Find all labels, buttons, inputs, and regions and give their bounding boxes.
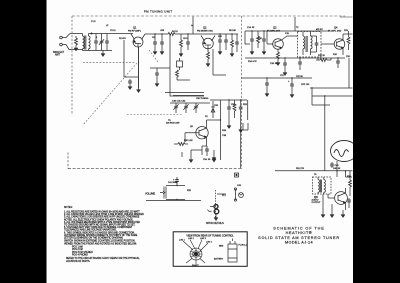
svg-text:REFER TO THE CIRCUIT BOARD X-R: REFER TO THE CIRCUIT BOARD X-RAY VIEWS F…: [66, 257, 140, 260]
svg-text:R8 10K: R8 10K: [229, 30, 237, 32]
svg-text:HEATHKIT®: HEATHKIT®: [286, 231, 313, 235]
notes text block: [64, 207, 144, 263]
pilot lamp PL1: [239, 193, 244, 198]
svg-text:C3 15: C3 15: [110, 30, 116, 32]
tuning gang dashed link to AM section: [127, 50, 183, 115]
svg-text:IF AMPL 2ND: IF AMPL 2ND: [328, 29, 342, 32]
border mask left: [0, 0, 47, 283]
svg-text:Q1: Q1: [133, 26, 137, 30]
svg-text:FM MIXER OSC: FM MIXER OSC: [197, 30, 213, 32]
label Q6 designator: [312, 195, 322, 204]
output transformer T6 primary: [318, 177, 320, 194]
svg-text:3. ALL CAPACITORS 1 OR GREATE: 3. ALL CAPACITORS 1 OR GREATER ARE IN PF…: [64, 216, 140, 219]
resistor R33: [349, 171, 352, 196]
svg-text:C34 .05: C34 .05: [203, 159, 211, 161]
earphone jack J1 tip: [210, 205, 218, 209]
ground below Q1: [137, 88, 141, 93]
svg-text:LOCATION OF PARTS.: LOCATION OF PARTS.: [66, 260, 90, 263]
capacitor C37: [239, 100, 243, 133]
wire volume bottom: [168, 198, 185, 200]
wire low rail pair: [165, 93, 204, 96]
wire top rail to boundary: [203, 33, 238, 35]
capacitor C1: [94, 34, 98, 51]
svg-text:NOTES:: NOTES:: [64, 207, 73, 209]
capacitor C6: [153, 34, 157, 55]
svg-text:SOLID STATE AM STEREO TUNER: SOLID STATE AM STEREO TUNER: [258, 236, 340, 240]
battery labels: [214, 245, 247, 261]
transformer T1 core: [85, 36, 86, 50]
title block text: [258, 227, 340, 245]
label Q1 designator: [128, 26, 142, 33]
trimmer capacitor C2: [99, 34, 104, 51]
volume control R30: [160, 186, 168, 200]
svg-text:POS 4 PHONO: POS 4 PHONO: [72, 254, 88, 256]
svg-text:C30 C31 C32: C30 C31 C32: [172, 101, 186, 103]
svg-text:VOLUME: VOLUME: [145, 193, 156, 196]
svg-text:BATTERY: BATTERY: [214, 258, 224, 261]
wire Q1 collector to rail: [145, 33, 160, 35]
label AM antenna: [166, 120, 180, 125]
svg-text:R20 2.2K: R20 2.2K: [184, 140, 193, 142]
ground small near jack: [212, 158, 216, 163]
label detector values: [222, 130, 227, 137]
svg-text:R4 1K: R4 1K: [172, 31, 178, 33]
svg-text:R31 270: R31 270: [296, 168, 305, 170]
antenna terminal E1: [60, 34, 70, 39]
wire volume top: [168, 185, 185, 187]
capacitor C15: [262, 31, 266, 55]
wire meter lead: [336, 161, 338, 171]
svg-text:LETTERED WIRING SHOWN CONNECTS: LETTERED WIRING SHOWN CONNECTS TO POINTS…: [64, 234, 138, 237]
svg-text:MODEL AJ-14: MODEL AJ-14: [285, 241, 313, 245]
label FM TUNING UNIT: [144, 9, 172, 13]
wire phono branch: [181, 152, 183, 157]
label AM tuning section values: [172, 101, 186, 103]
IF transformer T2 secondary: [311, 32, 313, 55]
resistor R4: [165, 33, 179, 36]
output transformer T6 core: [320, 180, 321, 193]
wire Q5 base: [185, 133, 199, 142]
svg-text:5. VOLTAGES MAY VARY ±20% DUE: 5. VOLTAGES MAY VARY ±20% DUE TO NORMAL …: [64, 226, 133, 229]
svg-text:FM TUNING UNIT: FM TUNING UNIT: [144, 9, 172, 13]
terminal strip square: [235, 173, 239, 177]
resistor R22: [233, 100, 236, 118]
label Q2 designator: [197, 26, 213, 33]
svg-text:NEG: NEG: [219, 246, 224, 248]
capacitor C9 second row: [155, 68, 159, 87]
capacitor C14: [250, 31, 254, 55]
wire AVC line vertical: [241, 100, 248, 168]
svg-text:C41 50MF: C41 50MF: [168, 182, 178, 184]
detail inset box: [173, 232, 247, 266]
wire B+ feed right: [310, 88, 353, 105]
capacitor C40: [330, 162, 339, 168]
svg-text:Q2: Q2: [203, 26, 207, 30]
earphone jack J1 sleeve: [208, 209, 219, 214]
diode D1: [211, 101, 215, 118]
output transformer T6 secondary: [324, 177, 326, 194]
wire Q1 bypass branch: [124, 40, 139, 77]
svg-text:SCHEMATIC OF THE: SCHEMATIC OF THE: [273, 227, 324, 231]
svg-text:C40 .02: C40 .02: [333, 168, 341, 170]
svg-text:ANT: ANT: [55, 54, 60, 57]
capacitor C45: [347, 198, 351, 208]
svg-text:Q3: Q3: [273, 26, 277, 30]
wire output stage feeds: [323, 171, 352, 213]
capacitor C8: [186, 34, 190, 50]
capacitor C11: [224, 34, 228, 50]
wire Q3 collector to T2: [282, 36, 299, 40]
label 300 ohm EXT ANT: [53, 51, 65, 57]
antenna terminal E2: [60, 43, 69, 49]
chassis dashed bus line: [68, 153, 242, 169]
wire T2 to Q4: [321, 43, 334, 45]
svg-text:FM RF AMPL: FM RF AMPL: [128, 29, 142, 32]
resistor R13: [347, 31, 350, 50]
control rear view drawing: [183, 240, 208, 265]
wire B plus drop from boundary: [193, 17, 295, 35]
label Q4 designator: [328, 26, 342, 33]
capacitor C18: [283, 58, 287, 76]
svg-text:C30 TUNING: C30 TUNING: [196, 98, 209, 100]
svg-text:NOTED. ALL ELECTROLYTICS SHOW: NOTED. ALL ELECTROLYTICS SHOW POLARITY A…: [64, 218, 134, 221]
svg-text:POS 1 AM: POS 1 AM: [72, 246, 83, 249]
inset title text: [186, 235, 234, 238]
IF transformer T2 core: [306, 36, 307, 52]
wire second row link: [150, 68, 190, 80]
svg-text:R2 470: R2 470: [119, 38, 127, 40]
svg-text:OFF ON: OFF ON: [301, 84, 310, 86]
variable capacitor C31: [183, 103, 188, 113]
capacitor C5 with ground: [128, 79, 132, 90]
wire AM top rail: [210, 99, 247, 101]
svg-text:1. ALL RESISTORS ARE RATED IN: 1. ALL RESISTORS ARE RATED IN OHMS (K=10…: [64, 211, 140, 214]
svg-text:2. ALL CAPACITOR VALUES LESS: 2. ALL CAPACITOR VALUES LESS THAN 1 ARE …: [64, 213, 144, 216]
svg-text:OUTPUT: OUTPUT: [312, 202, 322, 204]
wire AM tuning rail: [170, 102, 210, 104]
IF transformer T2 primary: [303, 32, 305, 55]
battery detail drawing: [228, 239, 237, 263]
resistor R20: [174, 143, 188, 146]
wire right edge drop: [348, 58, 350, 88]
wire Q4 collector rail: [310, 31, 353, 34]
wire Q5 emitter to ground: [189, 146, 202, 163]
transistor Q2: [201, 36, 215, 50]
tuning meter M1: [331, 141, 358, 162]
IF transformer T2 dashed box: [298, 32, 322, 58]
resistor R10: [257, 31, 260, 48]
wire IF input rail: [245, 31, 310, 44]
wire Q2 collector branch: [213, 49, 226, 75]
svg-text:6. THIS SYMBOL INDICATES: 6. THIS SYMBOL INDICATES A CHASSIS GROUN…: [64, 231, 135, 234]
svg-text:SWITCH SHOWN IN EXTREME COUNTE: SWITCH SHOWN IN EXTREME COUNTERCLOCKWISE…: [64, 241, 136, 243]
wire AM B rail vertical: [220, 100, 222, 160]
FM tuning unit dashed enclosure top line: [72, 16, 353, 17]
wire audio takeoff: [146, 200, 201, 202]
variable capacitor C30: [173, 103, 178, 113]
resistor R1: [75, 36, 78, 46]
svg-text:PLUS (+): PLUS (+): [239, 245, 248, 247]
wire branch to second stage: [170, 34, 204, 96]
resistor R15: [316, 58, 331, 62]
crystal Y1 box: [177, 58, 183, 70]
resistor R8: [230, 34, 234, 57]
transistor Q1: [131, 34, 145, 47]
ground output 2: [330, 213, 334, 218]
ground below R1: [74, 46, 78, 51]
control lug labels: [179, 238, 213, 267]
capacitor C7: [160, 34, 164, 55]
wire third row rail: [242, 77, 313, 79]
capacitor C19: [298, 58, 302, 70]
resistor R5: [179, 34, 183, 57]
svg-text:Q4: Q4: [334, 26, 338, 30]
tuning gang dashed link diagonal: [83, 62, 137, 125]
capacitor C3: [105, 34, 109, 51]
label speaker detail note: [206, 222, 224, 225]
wire mid rail: [160, 33, 203, 35]
output transformer T6 dashed box: [313, 177, 332, 194]
wire second row rail: [245, 57, 345, 59]
border mask right: [353, 0, 400, 283]
capacitor C12: [235, 34, 239, 52]
capacitor C36: [227, 100, 231, 129]
svg-text:C18 .05: C18 .05: [270, 63, 278, 65]
svg-text:R15 1K: R15 1K: [318, 55, 326, 57]
svg-text:C22 50: C22 50: [296, 76, 304, 78]
transformer T1 primary: [83, 34, 85, 51]
resistor R6 second row: [176, 70, 179, 80]
FM tuning unit dashed enclosure left line: [71, 16, 73, 115]
transformer T1 secondary: [89, 34, 91, 51]
svg-text:TOLERANCES AND LINE VOLTAGE VA: TOLERANCES AND LINE VOLTAGE VARIATIONS.: [64, 229, 117, 232]
transistor Q5: [196, 120, 208, 146]
svg-text:SHAFT: SHAFT: [192, 264, 199, 267]
variable capacitor C32: [193, 103, 198, 113]
ground output 3: [341, 213, 345, 218]
resistor R11 emitter Q3: [276, 49, 280, 65]
wire Q1 emitter down to ground: [138, 47, 140, 88]
switch dashed link: [214, 190, 216, 218]
ground below jack: [214, 215, 218, 221]
ground output 1: [321, 213, 325, 218]
svg-text:R14 4.7K: R14 4.7K: [248, 61, 257, 63]
wire meter feed vertical: [324, 96, 326, 171]
svg-text:VIEWED FROM THE FRONT AND ROTA: VIEWED FROM THE FRONT AND ROTATES AS IND…: [64, 243, 137, 246]
wire T1 bottom rail: [83, 50, 113, 52]
electrolytic C41: [173, 177, 179, 186]
wire antenna to T1: [69, 34, 83, 50]
label Q3 designator: [267, 26, 281, 33]
svg-text:LETTER ELSEWHERE ON THE SCHEMA: LETTER ELSEWHERE ON THE SCHEMATIC DIAGRA…: [64, 237, 123, 240]
svg-text:LUG 1: LUG 1: [179, 240, 186, 242]
IF section dashed boundary vertical: [241, 16, 243, 169]
svg-text:C14 .02: C14 .02: [247, 27, 255, 29]
svg-text:4. ALL VOLTAGES MEASURED WITH: 4. ALL VOLTAGES MEASURED WITH A VTVM FRO…: [64, 221, 140, 224]
capacitor C10: [218, 34, 222, 55]
inductor L8 stub: [243, 123, 248, 130]
capacitor C34: [202, 146, 209, 156]
electrolytic C43: [234, 188, 236, 201]
wire T1 secondary top rail: [89, 33, 134, 34]
transistor Q6: [328, 188, 347, 210]
ground at input network: [101, 51, 105, 57]
svg-text:TO CHASSIS GROUND WITH NO SIGN: TO CHASSIS GROUND WITH NO SIGNAL INPUT A…: [64, 224, 136, 227]
svg-text:LUG 3: LUG 3: [200, 238, 207, 240]
component value labels: [91, 21, 352, 197]
label VOLUME: [145, 193, 156, 196]
svg-text:AM ROD ANT: AM ROD ANT: [166, 121, 180, 124]
svg-text:Q6: Q6: [314, 195, 318, 199]
svg-text:LUG 4: LUG 4: [206, 242, 213, 244]
electrolytic C22: [288, 78, 294, 98]
transistor Q3: [267, 31, 283, 49]
svg-text:LUG 2: LUG 2: [188, 238, 195, 240]
ground AM detector: [212, 150, 216, 161]
capacitor C16 inside T2: [311, 36, 319, 52]
capacitor C20: [336, 58, 340, 68]
transistor Q4: [334, 34, 345, 55]
wire lamp feed: [217, 193, 226, 195]
label power text: [301, 84, 310, 86]
svg-text:455 KC: 455 KC: [316, 29, 323, 31]
svg-text:SPKR DETAILS: SPKR DETAILS: [206, 222, 224, 225]
audio rail wire: [275, 170, 353, 172]
capacitor C21 with ground: [265, 78, 269, 97]
svg-text:IF AMPL 1ST: IF AMPL 1ST: [267, 29, 281, 32]
wire AM collector load: [207, 119, 221, 121]
resistor R7 emitter Q2: [206, 49, 210, 67]
